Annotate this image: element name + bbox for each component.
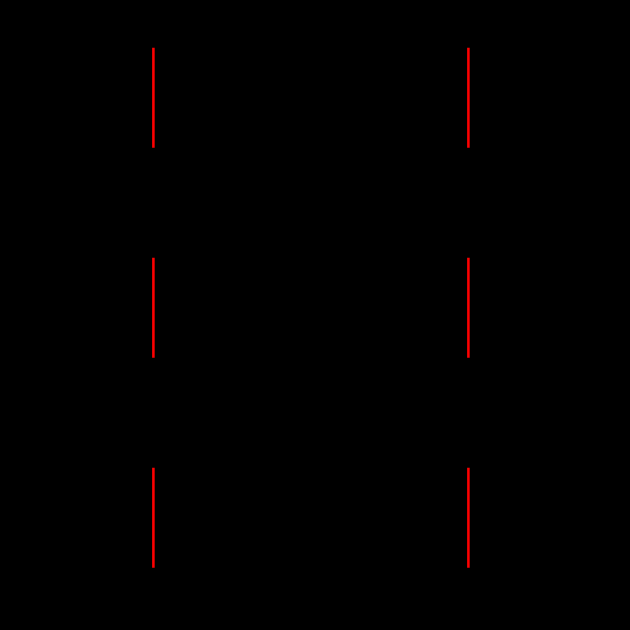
wire W4 (right branch, top segment) <box>467 48 470 148</box>
wire W2 (left branch, middle segment) <box>152 258 155 358</box>
wire W6 (right branch, bottom segment) <box>467 468 470 568</box>
wire W1 (left branch, top segment) <box>152 48 155 148</box>
wire W5 (right branch, middle segment) <box>467 258 470 358</box>
wire W3 (left branch, bottom segment) <box>152 468 155 568</box>
